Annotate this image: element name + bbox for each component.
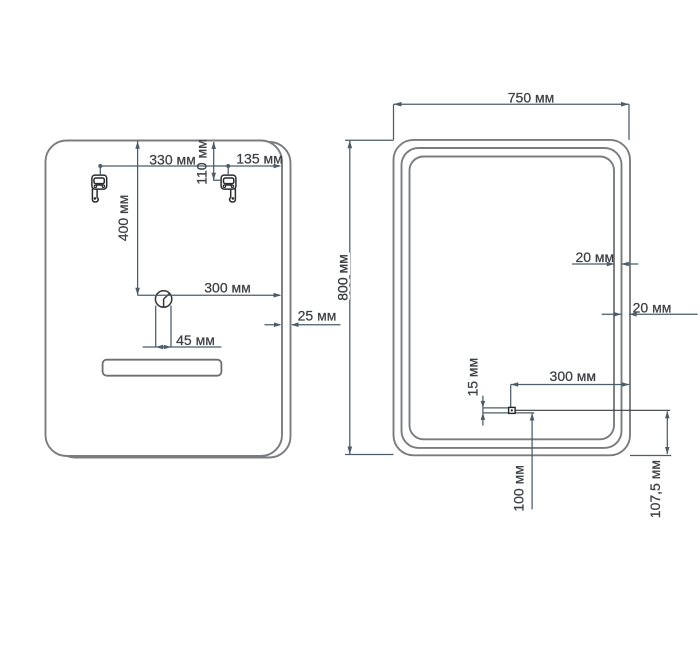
svg-text:25 мм: 25 мм — [298, 308, 337, 324]
svg-text:45 мм: 45 мм — [176, 332, 215, 348]
svg-text:20 мм: 20 мм — [575, 249, 614, 265]
svg-text:20 мм: 20 мм — [633, 299, 672, 315]
svg-text:330 мм: 330 мм — [149, 152, 196, 168]
svg-text:15 мм: 15 мм — [465, 358, 481, 397]
svg-text:300 мм: 300 мм — [550, 368, 597, 384]
svg-text:400 мм: 400 мм — [115, 195, 131, 242]
svg-text:110 мм: 110 мм — [194, 139, 210, 184]
svg-text:300 мм: 300 мм — [204, 280, 251, 296]
svg-text:800 мм: 800 мм — [334, 254, 350, 301]
svg-text:107,5 мм: 107,5 мм — [647, 460, 663, 518]
svg-text:100 мм: 100 мм — [511, 465, 527, 512]
svg-text:135 мм: 135 мм — [236, 151, 283, 167]
svg-text:750 мм: 750 мм — [508, 90, 555, 106]
